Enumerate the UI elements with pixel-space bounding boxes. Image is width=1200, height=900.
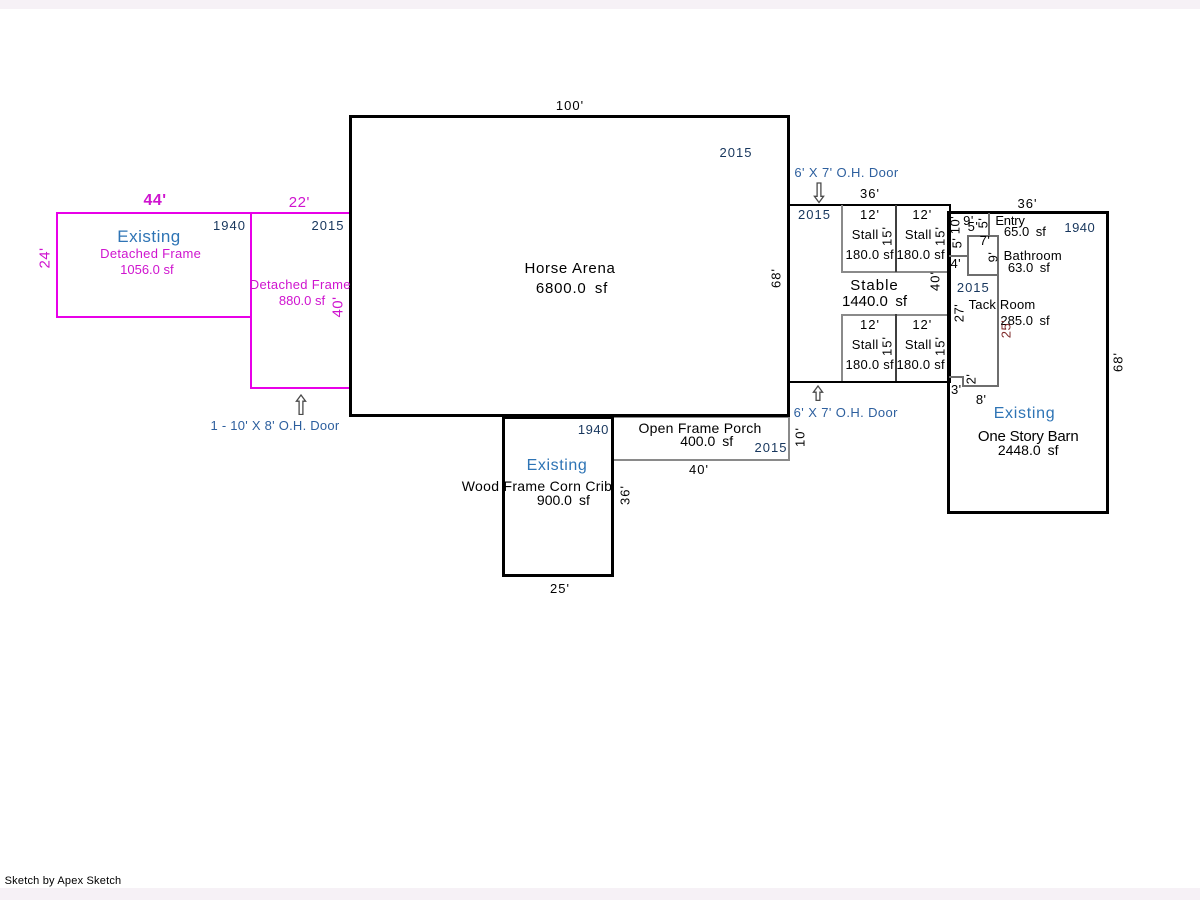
label: dim 10 entry left (948, 215, 961, 233)
label: bathroom area (1008, 261, 1050, 274)
label: dim 5 entry right (976, 217, 989, 228)
label: entry area (1004, 225, 1046, 238)
label: stall BR name (905, 338, 932, 351)
label: door label stable bottom (794, 406, 898, 419)
label: dim 36 barn top (1018, 197, 1038, 210)
stall block top divider (895, 205, 897, 272)
label: bldg1 area (120, 263, 174, 276)
open frame porch outline (612, 416, 791, 461)
label: dim 4 left wall (950, 257, 961, 270)
label: barn name (978, 429, 1079, 444)
label: stall BL area (846, 358, 894, 371)
label: door label bldg2 (211, 419, 340, 432)
tack room right wall (997, 235, 999, 387)
label: crib name (462, 479, 612, 493)
horse arena outline (349, 115, 790, 417)
entry right wall (988, 213, 990, 237)
label: dim 24 bldg1 left (37, 247, 52, 268)
label: dim 68 barn right (1111, 352, 1124, 372)
label: dim 3 tack step (951, 383, 962, 396)
label: stall TL dim 15 (881, 226, 894, 246)
label: arena area (536, 281, 608, 296)
label: year 1940 barn (1064, 221, 1095, 234)
label: entry name (995, 214, 1024, 227)
stall block top left wall (841, 205, 843, 272)
label: dim 40 stable right (928, 271, 941, 291)
label: stall BR area (897, 358, 945, 371)
label: porch area (680, 434, 733, 448)
label: dim 36 stable top (860, 187, 880, 200)
label: dim 5 entry bottom (968, 220, 979, 233)
label: stall TR dim 15 (934, 226, 947, 246)
label: dim 22 bldg2 top (289, 195, 310, 210)
label: dim 25 tack right (1000, 320, 1013, 338)
label: bldg2 area (279, 294, 325, 307)
label: bldg1 name (100, 247, 201, 260)
label: dim 100 arena top (556, 99, 584, 112)
label: year 1940 crib (578, 423, 609, 436)
label: year 2015 porch (755, 441, 788, 454)
bottom page margin strip (0, 888, 1200, 900)
stall block top bottom wall (841, 271, 948, 273)
label: arena name (524, 261, 615, 276)
entry bottom wall (949, 255, 968, 257)
tack step right wall (962, 376, 964, 387)
label: dim 5 left wall (950, 238, 963, 249)
stable outline (787, 204, 951, 383)
tack room bottom wall (962, 385, 998, 387)
label: dim 40 porch bottom (689, 463, 709, 476)
stall block bottom top wall (841, 314, 948, 316)
label: stall TL name (852, 228, 879, 241)
corn crib outline (502, 416, 615, 577)
one story barn outline (947, 211, 1109, 514)
tack step top wall (949, 376, 963, 378)
label: stall TR area (897, 248, 945, 261)
building detached frame 1940 outline (56, 212, 252, 318)
bathroom left wall (967, 235, 969, 276)
label: crib existing (527, 458, 588, 474)
label: year 2015 tack (957, 281, 990, 294)
label: dim 27 tack left (953, 303, 966, 321)
label: dim 7 bathroom (980, 234, 991, 247)
label: stall TL area (846, 248, 894, 261)
label: year 2015 arena (720, 146, 753, 159)
label: stall BL dim 15 (881, 336, 894, 356)
bathroom top wall (967, 235, 999, 237)
label: crib area (537, 493, 590, 507)
label: stall BL name (852, 338, 879, 351)
label: bldg1 existing (117, 228, 181, 245)
label: stable area (842, 294, 907, 309)
label: dim 36 crib right (619, 485, 632, 505)
label: dim 68 arena right (769, 268, 782, 288)
label: stall BR dim 12 (912, 318, 932, 331)
label: stall TL dim 12 (860, 208, 880, 221)
label: stall TR dim 12 (912, 208, 932, 221)
label: dim 25 crib bottom (550, 582, 570, 595)
label: tack room area (1000, 314, 1049, 327)
label: year 2015 stable (798, 208, 831, 221)
label: dim 10 porch right (793, 427, 806, 447)
label: dim 40 bldg2 right (330, 297, 345, 318)
label: dim 44 bldg1 top (143, 193, 166, 209)
label: door label stable top (794, 166, 898, 179)
stall block bottom left wall (841, 314, 843, 381)
top page margin strip (0, 0, 1200, 9)
door arrow stable bottom (810, 385, 826, 401)
label: porch name (638, 421, 761, 435)
label: stable name (850, 278, 899, 293)
label: year 2015 bldg2 (312, 219, 345, 232)
label: bathroom name (1004, 249, 1062, 262)
label: dim 2 tack step (965, 374, 978, 385)
label: tack room name (969, 298, 1036, 311)
label: dim 9 entry top (963, 214, 974, 227)
label: bldg2 name (250, 278, 351, 291)
stall block bottom divider (895, 314, 897, 381)
door arrow stable top (811, 182, 827, 204)
label: dim 8 tack bottom (976, 393, 987, 406)
label: footer brand (5, 876, 122, 887)
label: barn area (998, 443, 1059, 457)
label: dim 9 bathroom (986, 252, 999, 263)
label: stall BR dim 15 (934, 336, 947, 356)
label: year 1940 bldg1 (213, 219, 246, 232)
label: stall BL dim 12 (860, 318, 880, 331)
label: barn existing (994, 406, 1056, 422)
label: stall TR name (905, 228, 932, 241)
building detached frame 2015 outline (250, 212, 351, 389)
door arrow bldg2 (293, 394, 309, 416)
bathroom bottom wall (967, 274, 999, 276)
